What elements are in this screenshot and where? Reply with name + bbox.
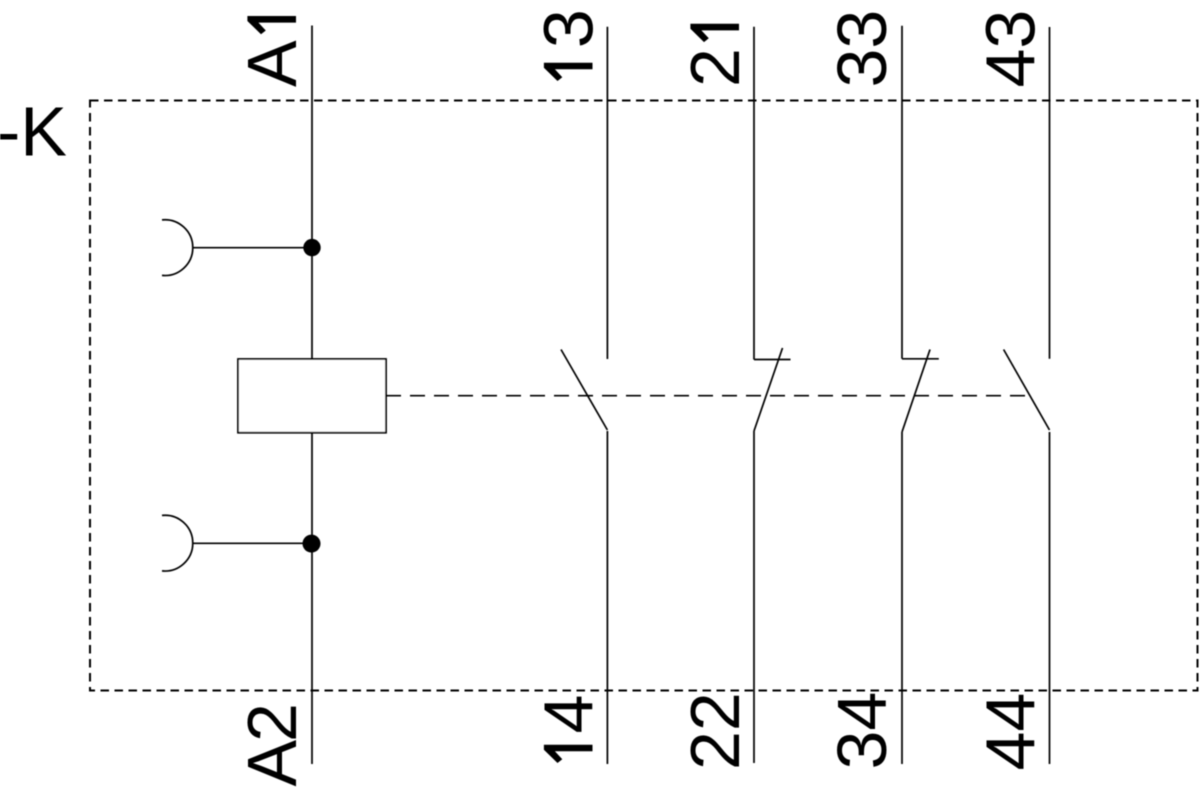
clamp contact arc bottom	[162, 515, 193, 571]
junction node top (dot)	[303, 239, 320, 256]
svg-text:22: 22	[676, 692, 754, 770]
NC contact 21 seat bar	[754, 359, 791, 361]
wire 43 upper	[1049, 27, 1051, 359]
svg-text:2: 2	[676, 48, 754, 87]
svg-text:A: A	[233, 40, 311, 87]
junction node bottom (dot)	[303, 535, 321, 553]
wire 33 upper	[901, 26, 903, 359]
svg-text:44: 44	[972, 693, 1050, 771]
NO contact 43-44 lever	[1004, 350, 1050, 431]
actuator linkage dashed line	[386, 395, 1030, 397]
wire 44 lower	[1049, 432, 1051, 764]
svg-text:33: 33	[823, 10, 901, 88]
wire 13 upper	[606, 27, 608, 359]
NO contact 13-14 lever	[561, 350, 607, 431]
NC contact 33-34 lever	[902, 350, 930, 433]
svg-text:3: 3	[530, 9, 608, 48]
enclosure dashed boundary	[90, 101, 1198, 691]
terminal label A2	[233, 703, 311, 786]
coil K (rectangle)	[238, 359, 386, 433]
NC contact 33 seat bar	[902, 358, 939, 360]
wire 34 lower	[901, 432, 903, 764]
svg-text:34: 34	[823, 692, 901, 770]
wire 21 upper	[753, 27, 755, 360]
wire 22 lower	[753, 431, 755, 763]
wire 14 lower	[606, 431, 608, 764]
NC contact 21-22 lever	[754, 348, 783, 431]
terminal label 21	[676, 24, 754, 87]
wire clamp bottom to node	[193, 542, 312, 544]
terminal label A1	[233, 16, 311, 87]
svg-text:-K: -K	[0, 93, 67, 171]
terminal label 14	[530, 695, 608, 763]
svg-text:A: A	[233, 740, 311, 787]
wire A1-A2 vertical	[311, 26, 313, 765]
wire clamp top to node	[193, 247, 312, 249]
svg-text:43: 43	[972, 10, 1050, 88]
clamp contact arc top	[162, 220, 193, 276]
svg-text:2: 2	[233, 703, 311, 742]
terminal label 13	[530, 9, 608, 81]
svg-text:4: 4	[530, 695, 608, 734]
